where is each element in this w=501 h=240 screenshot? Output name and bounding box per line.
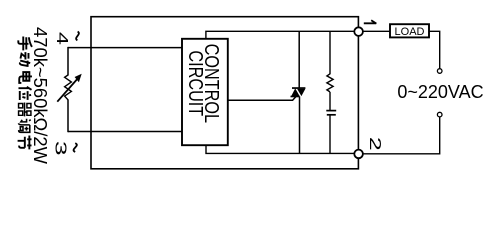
wire RC branch upper: [329, 31, 331, 74]
glyph jie: [18, 135, 32, 149]
label tilde bottom (rotated): [74, 143, 77, 152]
wire triac gate: [228, 97, 296, 101]
label Chinese column (hand-drawn glyphs): [18, 36, 32, 149]
glyph diao: [18, 119, 30, 133]
resistor R zigzag: [327, 74, 333, 92]
svg-text:470k~560kΩ/2W: 470k~560kΩ/2W: [30, 27, 51, 165]
wire triac branch upper: [298, 31, 300, 88]
terminal 2 circle: [354, 150, 363, 159]
potentiometer RP zigzag: [65, 75, 72, 100]
wire capacitor to rail: [329, 115, 331, 153]
wire pot left upper: [67, 47, 69, 76]
control module U1 box: [182, 39, 228, 145]
label 1 (rotated): [364, 20, 377, 23]
glyph dong: [20, 52, 30, 67]
wire triac branch lower: [299, 96, 301, 153]
glyph shou: [18, 36, 32, 50]
svg-text:4: 4: [53, 32, 71, 45]
potentiometer arrow: [57, 78, 78, 102]
glyph wei: [18, 87, 31, 100]
AC terminal top circle: [437, 69, 442, 74]
svg-text:0~220VAC: 0~220VAC: [397, 82, 483, 102]
capacitor C plates: [326, 110, 336, 112]
wire control box top to rail: [206, 31, 358, 39]
svg-text:CIRCUIT: CIRCUIT: [185, 50, 207, 116]
glyph qi: [19, 102, 31, 116]
wire terminal1 to LOAD: [358, 30, 390, 32]
wire control box bottom to rail: [206, 145, 358, 153]
glyph dian: [19, 72, 32, 83]
wire pot bottom: [68, 131, 182, 133]
wire LOAD to AC top: [429, 31, 440, 68]
svg-text:LOAD: LOAD: [395, 26, 425, 38]
wire AC bottom to terminal2: [362, 117, 439, 154]
svg-text:3: 3: [52, 141, 70, 156]
svg-text:2: 2: [366, 137, 383, 151]
terminal 1 circle: [354, 27, 363, 36]
label tilde top (rotated): [76, 32, 79, 41]
LOAD box: [390, 24, 429, 37]
outer enclosure box: [91, 17, 358, 169]
AC terminal bottom circle: [437, 112, 442, 117]
triac V1: [291, 87, 306, 97]
wire pot left lower: [67, 100, 69, 133]
wire resistor to capacitor: [329, 92, 331, 110]
wire pot top: [68, 47, 182, 49]
